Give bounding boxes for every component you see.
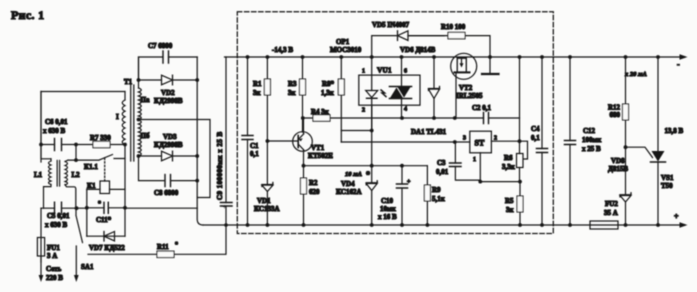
svg-text:13,8 В: 13,8 В xyxy=(665,127,684,135)
diode VD5 xyxy=(372,21,444,57)
svg-text:SA1: SA1 xyxy=(81,263,94,271)
label x 20 mA xyxy=(624,71,647,78)
capacitor C7 xyxy=(139,42,198,80)
fuse FU1 xyxy=(37,208,60,262)
resistor R7 xyxy=(74,134,127,148)
optocoupler lightning xyxy=(381,90,386,97)
svg-text:С7 6800: С7 6800 xyxy=(148,42,173,50)
TL431 DA1 box xyxy=(411,128,497,163)
svg-text:DA1 TL431: DA1 TL431 xyxy=(411,128,447,136)
svg-text:VD6 Д814В: VD6 Д814В xyxy=(400,46,436,54)
svg-text:R7 330: R7 330 xyxy=(90,134,111,142)
svg-text:VD7 КД522: VD7 КД522 xyxy=(89,244,125,252)
svg-text:1: 1 xyxy=(362,69,365,75)
svg-text:КТ502Е: КТ502Е xyxy=(308,152,333,160)
choke core xyxy=(57,161,59,187)
wire: TL431 cathode line (pin3) xyxy=(341,141,455,143)
svg-text:3 А: 3 А xyxy=(47,252,57,260)
relay coil K1 xyxy=(87,158,125,194)
zener VD1 xyxy=(254,141,280,227)
resistor R4 xyxy=(303,108,403,121)
chassis tab of VT2 xyxy=(482,57,499,74)
svg-text:КС162А: КС162А xyxy=(336,188,362,196)
svg-text:6: 6 xyxy=(404,69,407,75)
svg-text:R5: R5 xyxy=(505,197,514,205)
svg-text:С3: С3 xyxy=(437,159,446,167)
svg-text:VU1: VU1 xyxy=(377,66,392,75)
svg-text:VD3: VD3 xyxy=(163,133,177,141)
svg-text:Т1: Т1 xyxy=(124,78,133,86)
resistor R11 xyxy=(88,225,226,258)
resistor R12 xyxy=(608,55,629,147)
svg-text:х 25 В: х 25 В xyxy=(582,145,601,153)
svg-text:10 мА: 10 мА xyxy=(345,171,363,178)
transistor VT1 xyxy=(266,116,334,166)
inductor L1 xyxy=(34,92,51,209)
resistor R8 xyxy=(321,55,344,142)
capacitor C3 xyxy=(436,142,480,180)
svg-text:*: * xyxy=(366,170,370,179)
fuse FU2 xyxy=(590,200,618,229)
svg-text:R2: R2 xyxy=(309,179,318,187)
svg-text:R6: R6 xyxy=(504,154,513,162)
svg-text:3к: 3к xyxy=(288,89,297,97)
svg-text:R4 3к: R4 3к xyxy=(311,108,330,116)
svg-text:L2: L2 xyxy=(72,171,81,179)
wire: input loop top xyxy=(41,91,125,93)
capacitor C2 xyxy=(402,104,520,124)
dashed module box xyxy=(237,12,553,234)
optocoupler triac xyxy=(390,55,412,120)
svg-text:1: 1 xyxy=(473,157,476,163)
resistor R5 xyxy=(505,180,523,227)
svg-text:3,3к: 3,3к xyxy=(502,163,516,171)
svg-text:Д815В: Д815В xyxy=(608,165,628,173)
svg-text:VD1: VD1 xyxy=(257,197,271,205)
svg-text:VT1: VT1 xyxy=(311,144,325,152)
wire: TL431 pin1 / divider node xyxy=(478,153,520,184)
resistor R6 (with wiper) xyxy=(502,55,528,182)
svg-text:R10 100: R10 100 xyxy=(441,23,466,31)
wire: rectifier rail to bottom rail xyxy=(197,57,203,225)
zener VD4 xyxy=(336,105,377,227)
svg-text:С12: С12 xyxy=(583,127,596,135)
svg-text:FU1: FU1 xyxy=(47,244,60,252)
svg-text:FU2: FU2 xyxy=(605,200,618,208)
svg-text:+: + xyxy=(407,179,411,185)
svg-text:680: 680 xyxy=(610,111,621,119)
svg-text:+: + xyxy=(223,203,227,211)
svg-text:VD5 IN4007: VD5 IN4007 xyxy=(372,21,410,29)
svg-text:С1: С1 xyxy=(250,142,259,150)
svg-text:Т50: Т50 xyxy=(661,182,673,190)
output terminal plus xyxy=(674,212,688,228)
svg-text:-14,3 В: -14,3 В xyxy=(272,46,293,54)
svg-text:+: + xyxy=(674,212,679,221)
capacitor C8 xyxy=(139,156,200,197)
figure caption Рис. 1 xyxy=(11,8,44,22)
transformer secondary IIa xyxy=(137,57,150,120)
svg-text:VS1: VS1 xyxy=(661,174,674,182)
svg-text:*: * xyxy=(98,201,101,207)
svg-text:*: * xyxy=(175,242,178,248)
switch SA1 xyxy=(76,208,94,271)
svg-text:С8 6800: С8 6800 xyxy=(154,189,179,197)
wire: R8 to pin2 xyxy=(341,129,373,133)
inductor L2 xyxy=(65,145,80,209)
svg-text:3к: 3к xyxy=(506,206,515,214)
svg-text:С11*: С11* xyxy=(96,216,112,224)
wire: top rail -14.3 V xyxy=(225,46,684,57)
svg-text:220 В: 220 В xyxy=(46,274,63,282)
svg-text:МОС3010: МОС3010 xyxy=(330,46,362,54)
switch contact K1.1 xyxy=(76,155,125,172)
svg-text:2: 2 xyxy=(362,108,365,114)
transformer secondary IIb xyxy=(137,118,150,158)
MOSFET VT2 xyxy=(451,53,483,120)
svg-text:Рис. 1: Рис. 1 xyxy=(11,8,44,22)
transformer core xyxy=(131,85,134,161)
capacitor C12 xyxy=(565,55,603,227)
svg-text:I: I xyxy=(116,113,119,121)
svg-text:0,01: 0,01 xyxy=(436,168,449,176)
resistor R3 xyxy=(288,55,306,132)
capacitor C6 xyxy=(39,118,76,151)
transformer T1 primary winding I xyxy=(116,78,133,145)
svg-text:С4: С4 xyxy=(531,125,540,133)
svg-text:КС133А: КС133А xyxy=(254,205,280,213)
diode VD7 xyxy=(87,232,125,253)
wire: pin3 junction xyxy=(453,140,470,144)
svg-text:IIб: IIб xyxy=(141,132,150,140)
wire: mains horizontal with C5 xyxy=(41,207,87,209)
thyristor VS1 xyxy=(626,55,674,227)
capacitor C4 xyxy=(531,55,548,227)
svg-text:0,1: 0,1 xyxy=(531,134,540,142)
svg-text:С5 0,01: С5 0,01 xyxy=(47,212,70,220)
svg-text:4: 4 xyxy=(404,107,407,113)
wire: VT1 collector line xyxy=(304,165,428,167)
svg-text:0,1: 0,1 xyxy=(250,150,259,158)
mains terminal arrows Сеть 220 В xyxy=(39,246,79,282)
capacitor C11 xyxy=(85,145,127,237)
zener VD6 xyxy=(400,46,440,120)
svg-text:С10: С10 xyxy=(381,197,394,205)
wire: bottom rail xyxy=(203,224,683,226)
wire: center tap to rectifier xyxy=(139,120,211,198)
resistor R2 xyxy=(301,164,321,227)
diode VD2 xyxy=(139,75,200,105)
svg-text:10мк: 10мк xyxy=(380,205,397,213)
zener VD8 xyxy=(608,145,631,227)
resistor R9 xyxy=(424,166,445,227)
svg-text:3к: 3к xyxy=(253,89,262,97)
resistor R10 xyxy=(408,23,492,59)
diode VD3 xyxy=(139,133,200,161)
svg-text:С6 0,01: С6 0,01 xyxy=(45,118,68,126)
output terminal minus xyxy=(677,54,688,69)
capacitor C5 xyxy=(45,202,78,229)
svg-text:х 20 мА: х 20 мА xyxy=(624,71,647,78)
svg-text:VD8: VD8 xyxy=(611,157,625,165)
svg-text:35 А: 35 А xyxy=(604,209,618,217)
svg-text:ОР1: ОР1 xyxy=(336,38,350,46)
svg-text:VD2: VD2 xyxy=(161,89,175,97)
capacitor C9 (filter) xyxy=(216,57,232,227)
svg-text:Сеть: Сеть xyxy=(46,265,62,273)
svg-text:х 630 В: х 630 В xyxy=(43,127,66,135)
wire: left leg of mains loop xyxy=(40,92,42,163)
svg-text:1,3к: 1,3к xyxy=(321,89,335,97)
svg-text:х 16 В: х 16 В xyxy=(378,213,397,221)
svg-text:VD4: VD4 xyxy=(341,180,355,188)
svg-text:R3: R3 xyxy=(288,80,297,88)
svg-text:К1.1: К1.1 xyxy=(84,163,98,171)
svg-text:ST: ST xyxy=(475,139,485,148)
label 13.8 V xyxy=(665,127,684,135)
svg-text:3: 3 xyxy=(463,136,466,142)
svg-text:КД2998В: КД2998В xyxy=(154,141,183,149)
capacitor C10 xyxy=(378,164,411,227)
svg-text:IIа: IIа xyxy=(141,96,150,104)
svg-text:С9 100000мк х 25 В: С9 100000мк х 25 В xyxy=(216,131,224,200)
wire: mains line into rectifier column xyxy=(125,207,197,209)
resistor R1 xyxy=(253,55,270,141)
svg-text:100мк: 100мк xyxy=(582,136,602,144)
svg-text:R9: R9 xyxy=(432,186,441,194)
svg-text:L1: L1 xyxy=(34,171,43,179)
optocoupler VU1 box xyxy=(330,38,420,114)
wire: pin2 to R6 xyxy=(491,139,521,143)
svg-text:620: 620 xyxy=(309,188,320,196)
svg-text:С2 0,1: С2 0,1 xyxy=(472,104,492,112)
capacitor C1 xyxy=(242,55,259,227)
svg-text:R11: R11 xyxy=(157,243,169,251)
svg-text:К1: К1 xyxy=(87,182,96,190)
svg-text:R1: R1 xyxy=(253,80,262,88)
svg-text:-: - xyxy=(677,60,680,69)
svg-text:х 630 В: х 630 В xyxy=(45,221,68,229)
svg-text:КД2998В: КД2998В xyxy=(154,97,183,105)
svg-text:IRL2505: IRL2505 xyxy=(456,92,483,100)
svg-text:R8*: R8* xyxy=(322,80,335,88)
svg-text:VT2: VT2 xyxy=(459,84,473,92)
svg-text:5,1к: 5,1к xyxy=(432,195,446,203)
optocoupler LED xyxy=(366,55,378,130)
